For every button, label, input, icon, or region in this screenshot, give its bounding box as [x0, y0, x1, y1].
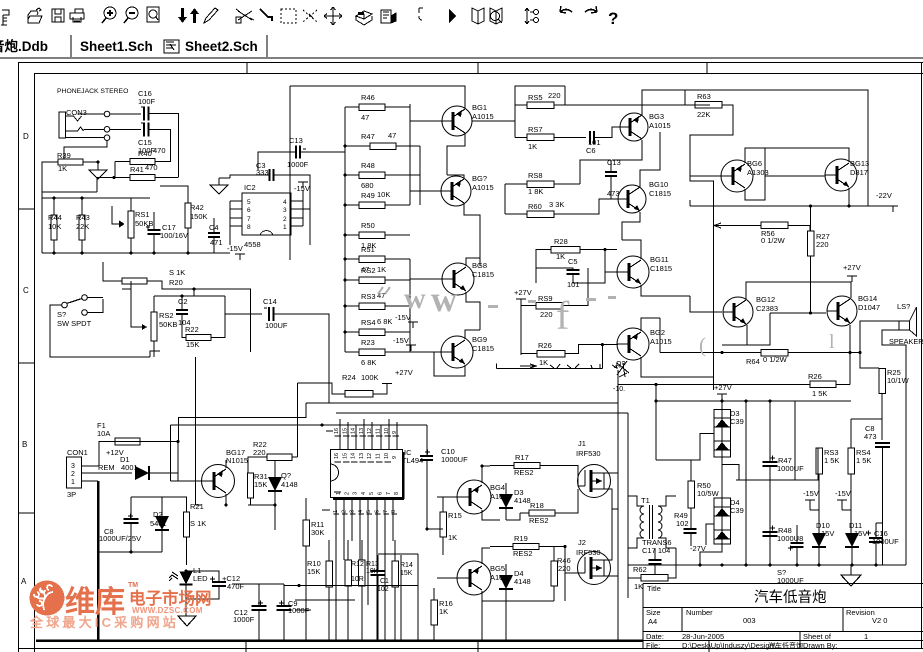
wire lower horiz 600: [295, 599, 355, 601]
wire BG6 emitter: [745, 176, 765, 200]
svg-text:C1815: C1815: [472, 270, 494, 279]
svg-text:f: f: [556, 293, 570, 338]
svg-text:R20: R20: [169, 278, 183, 287]
toolbar icon zoom doc: [147, 7, 159, 22]
wire to C14: [225, 313, 262, 315]
wire BG7 base: [410, 190, 441, 192]
wire BG3 emitter: [612, 140, 642, 160]
pin circle 2: [104, 127, 110, 133]
svg-text:RES2: RES2: [513, 549, 533, 558]
wire tip to C16: [110, 113, 141, 115]
svg-text:A1015: A1015: [472, 183, 494, 192]
feedback rail y413: [336, 412, 628, 414]
svg-text:471: 471: [210, 238, 223, 247]
jack contacts: [66, 116, 82, 121]
svg-text:B: B: [22, 440, 27, 449]
wire R26a right: [565, 345, 618, 354]
wire R39 right: [83, 161, 98, 163]
svg-text:470: 470: [145, 163, 158, 172]
transistor BG1: [442, 106, 472, 136]
wire R28 left: [536, 250, 551, 284]
svg-text:5: 5: [366, 510, 372, 513]
wire CON1 pin3: [82, 462, 100, 466]
svg-text:w: w: [431, 279, 457, 319]
svg-text:R18: R18: [530, 501, 544, 510]
svg-text:2: 2: [71, 471, 75, 478]
toolbar icon open: [28, 8, 42, 23]
svg-text:15: 15: [342, 428, 348, 434]
svg-text:6: 6: [378, 492, 384, 495]
svg-text:BG5: BG5: [490, 564, 505, 573]
wire C13 right: [300, 151, 345, 153]
wire C14 right: [274, 314, 330, 403]
svg-text:28-Jun-2005: 28-Jun-2005: [682, 632, 724, 641]
wire BG6 collector: [745, 148, 765, 176]
svg-text:15K: 15K: [307, 567, 320, 576]
wire bridge2 wires: [721, 491, 723, 498]
transistor BG5: [457, 561, 491, 595]
wire R22a right: [211, 296, 225, 338]
svg-text:4148: 4148: [281, 480, 298, 489]
pin circle 1: [104, 111, 110, 117]
wire BG5 base: [437, 577, 457, 579]
capacitor C9: [279, 601, 284, 606]
svg-text:C6: C6: [586, 146, 596, 155]
svg-text:R40: R40: [138, 149, 152, 158]
wire emitter stub left: [722, 344, 747, 346]
svg-text:Title: Title: [647, 584, 661, 593]
pin circle 3: [104, 135, 110, 141]
psu vertical x745: [745, 401, 747, 565]
svg-text:-15V: -15V: [393, 336, 409, 345]
svg-text:1000U8: 1000U8: [777, 534, 803, 543]
feedback staircase R24: [298, 383, 346, 394]
svg-text:220: 220: [548, 91, 561, 100]
toolbar icon book1: [472, 8, 484, 24]
svg-text:RS3: RS3: [361, 292, 376, 301]
svg-text:全球最大IC采购网站: 全球最大IC采购网站: [29, 615, 179, 630]
psu top rail wires: [795, 401, 818, 480]
wire C3 left: [230, 175, 270, 178]
wire R42 top: [160, 186, 188, 193]
zone tick bottom 3: [708, 641, 710, 652]
wire switch pole2: [88, 299, 104, 313]
svg-text:R43: R43: [76, 213, 90, 222]
wire J2 drain: [604, 509, 612, 560]
wire RS5 loop: [564, 86, 566, 105]
svg-text:A1015: A1015: [649, 121, 671, 130]
tab icon sheet2: [164, 40, 179, 53]
wire R40 right: [155, 161, 171, 163]
bottom rail 552: [99, 551, 162, 553]
svg-text:470: 470: [153, 146, 166, 155]
wire C8a top: [131, 496, 162, 498]
svg-text:5: 5: [369, 492, 375, 495]
svg-text:BG4: BG4: [490, 483, 505, 492]
toolbar icon dashed rect: [281, 9, 296, 23]
svg-text:C1: C1: [380, 578, 389, 585]
svg-text:3: 3: [283, 207, 287, 214]
watermark logo circle: [30, 581, 65, 616]
transistor BG17: [202, 465, 235, 498]
svg-text:R19: R19: [514, 534, 528, 543]
transistor BG14: [827, 296, 857, 326]
wire R63 right: [690, 105, 733, 176]
wire BG4 collector: [482, 466, 490, 483]
svg-text:1K: 1K: [634, 582, 643, 591]
ladder right bus stubs: [410, 145, 420, 147]
wire BG12 collector: [746, 282, 851, 299]
wire T1 left leads: [628, 496, 644, 506]
wire ring to C15: [110, 128, 141, 130]
svg-text:47: 47: [388, 131, 396, 140]
wire node to C2: [193, 289, 195, 296]
wire C16 right: [149, 114, 179, 178]
wire bottom bus to R46: [564, 547, 566, 602]
svg-text:14: 14: [351, 428, 357, 434]
capacitor S3 1000UF: [788, 546, 793, 551]
svg-text:+27V: +27V: [843, 263, 861, 272]
wire T1 to J: [612, 508, 618, 510]
wire R22b feed vertical: [297, 383, 299, 457]
svg-text:V2 0: V2 0: [872, 616, 887, 625]
svg-text:15K: 15K: [186, 340, 199, 349]
sheet right border: [921, 63, 923, 649]
wire R20 left: [103, 262, 122, 281]
transistor BG12: [723, 297, 753, 327]
IC3 bottom pin wires: [335, 498, 337, 640]
zone tick top 2: [477, 63, 479, 74]
wire R19 right: [539, 546, 565, 548]
ladder left bus: [344, 107, 346, 352]
svg-text:RES2: RES2: [514, 468, 534, 477]
svg-text:8: 8: [247, 224, 251, 231]
transistor Q7 scribble: [617, 361, 629, 377]
svg-text:4148: 4148: [514, 496, 531, 505]
svg-text:Sheet1.Sch: Sheet1.Sch: [80, 39, 153, 54]
svg-text:C5: C5: [568, 257, 578, 266]
wire BG12 emitter: [747, 313, 770, 345]
svg-text:N1015: N1015: [226, 456, 248, 465]
svg-text:15K: 15K: [400, 570, 413, 577]
svg-text:4: 4: [283, 199, 287, 206]
psu horizontal y480: [736, 479, 795, 481]
svg-text:Revision: Revision: [846, 608, 875, 617]
toolbar icon polyline: [260, 9, 272, 21]
wire IC2 pin3 stub: [303, 209, 310, 245]
svg-text:BG?: BG?: [472, 174, 487, 183]
svg-text:1: 1: [283, 224, 287, 231]
capacitor C17b: [649, 559, 662, 561]
wire R64 right: [788, 352, 860, 354]
resistor R16: [431, 600, 438, 625]
svg-text:13: 13: [359, 428, 365, 434]
svg-text:1K: 1K: [528, 142, 537, 151]
wire D1 right: [149, 442, 178, 474]
ladder right bus upper: [409, 104, 411, 205]
svg-text:电子市场网: 电子市场网: [129, 588, 212, 608]
wire LED to C12c: [186, 571, 219, 581]
svg-text:11: 11: [376, 453, 382, 459]
svg-text:R44: R44: [48, 213, 62, 222]
svg-text:3P: 3P: [67, 490, 76, 499]
wire C6 right: [594, 127, 620, 138]
wire BG10 collector: [640, 132, 660, 187]
svg-text:50KB: 50KB: [135, 219, 153, 228]
svg-text:R60: R60: [528, 202, 542, 211]
svg-text:470F: 470F: [227, 582, 245, 591]
wire BG8 collector: [466, 258, 480, 266]
svg-text:C1815: C1815: [650, 264, 672, 273]
svg-text:D: D: [23, 132, 29, 141]
svg-text:+27V: +27V: [714, 383, 732, 392]
wire BG11 emitter: [641, 285, 690, 296]
wire feedback box: [150, 351, 160, 357]
wire R28 right: [580, 249, 617, 251]
size row: [681, 608, 683, 632]
transistor BG8: [442, 263, 474, 295]
svg-text:2: 2: [344, 492, 350, 495]
resistor RS4b: [848, 448, 855, 474]
svg-text:?: ?: [608, 9, 618, 28]
svg-text:Number: Number: [686, 608, 713, 617]
transistor BG9: [441, 336, 473, 368]
svg-text:12: 12: [367, 428, 373, 434]
svg-text:D:\Desk\Up\Induszy\Design\: D:\Desk\Up\Induszy\Design\: [682, 641, 777, 650]
wire horiz 554: [378, 553, 418, 555]
svg-text:R14: R14: [400, 562, 413, 569]
wire CON1 pin1 thick: [82, 480, 99, 482]
transistor BG3: [620, 113, 648, 141]
svg-text:10/5W: 10/5W: [697, 489, 720, 498]
IC2 left bus: [229, 201, 231, 245]
svg-text:220: 220: [558, 564, 571, 573]
svg-text:10/1W: 10/1W: [887, 376, 910, 385]
toolbar icon save: [52, 9, 64, 22]
wire resistor bottom bus: [284, 585, 418, 587]
bridge rectifier D4: [714, 498, 731, 544]
wire BG1 collector top: [290, 86, 465, 108]
svg-text:1: 1: [864, 632, 868, 641]
wire caps top rail: [232, 583, 284, 585]
resistor R25: [879, 369, 886, 394]
svg-text:R21: R21: [190, 502, 204, 511]
toolbar icon print: [70, 9, 84, 22]
wire BG2 emitter: [641, 357, 714, 377]
wire BG12 base: [690, 296, 722, 312]
tab bar bottom line: [0, 57, 923, 59]
capacitor C16b: [866, 531, 871, 536]
wire out to R64 row: [660, 352, 714, 354]
toolbar icon move cross: [324, 7, 342, 25]
wire bridge1 wires: [721, 400, 723, 410]
feedback staircase left: [179, 403, 307, 442]
wire R17 right: [540, 466, 578, 474]
toolbar icon crossed dashed: [303, 10, 317, 22]
svg-text:4558: 4558: [244, 240, 261, 249]
svg-text:C39: C39: [730, 417, 744, 426]
resistor RS3b: [816, 448, 823, 474]
svg-text:2: 2: [283, 216, 287, 223]
svg-text:D1047: D1047: [858, 303, 880, 312]
svg-text:WWW.DZSC.COM: WWW.DZSC.COM: [132, 606, 203, 615]
wire C2 top: [154, 295, 225, 297]
svg-text:100K: 100K: [361, 373, 379, 382]
svg-text:(: (: [699, 333, 706, 357]
svg-text:+27V: +27V: [514, 288, 532, 297]
svg-text:CON1: CON1: [67, 448, 88, 457]
pin bus verticals: [339, 419, 341, 449]
svg-text:BG10: BG10: [649, 180, 668, 189]
svg-text:R41: R41: [130, 165, 144, 174]
svg-text:4148: 4148: [514, 577, 531, 586]
wire R60 right: [554, 199, 611, 214]
svg-text:J2: J2: [578, 538, 586, 547]
bridge rectifier D3: [714, 410, 731, 458]
svg-text:Size: Size: [646, 608, 661, 617]
svg-text:Drawn By:: Drawn By:: [803, 641, 838, 650]
svg-text:A: A: [21, 577, 27, 586]
svg-text:File:: File:: [646, 641, 660, 650]
wire speaker bottom: [882, 330, 906, 565]
svg-text:102: 102: [377, 586, 389, 593]
wire BG13 collector: [765, 148, 849, 162]
wire hash vertical: [601, 345, 603, 369]
wire psu 656 vertical: [655, 385, 657, 461]
svg-text:R47: R47: [361, 132, 375, 141]
power feed vertical x713: [690, 176, 714, 390]
wire rail552 to thick: [98, 551, 100, 553]
svg-text:S 1K: S 1K: [169, 268, 185, 277]
svg-text:R17: R17: [515, 453, 529, 462]
svg-text:1K: 1K: [439, 607, 448, 616]
svg-text:-15V: -15V: [803, 489, 819, 498]
zone tick left C/B: [19, 362, 35, 364]
svg-text:1 5K: 1 5K: [812, 389, 827, 398]
svg-text:1: 1: [71, 479, 75, 486]
svg-text:7: 7: [247, 216, 251, 223]
svg-text:D817: D817: [850, 168, 868, 177]
svg-text:Q?: Q?: [616, 361, 625, 368]
feedback rail y403: [306, 402, 618, 404]
svg-text:C14: C14: [263, 297, 277, 306]
svg-text:R23: R23: [361, 338, 375, 347]
svg-text:Sheet of: Sheet of: [803, 632, 832, 641]
wire sleeve down: [64, 141, 107, 160]
IC3 bottom pin numbers: [334, 491, 341, 493]
svg-text:BG12: BG12: [756, 295, 775, 304]
svg-text:3: 3: [71, 463, 75, 470]
svg-text:C13: C13: [607, 158, 621, 167]
wire bridge2 top link: [721, 465, 723, 492]
vertical x195 long: [195, 357, 197, 505]
IC2 left pin stubs: [230, 200, 242, 202]
svg-text:IRF530: IRF530: [576, 449, 601, 458]
wire J2 source: [604, 575, 618, 577]
svg-text:1K: 1K: [539, 358, 548, 367]
svg-text:R13: R13: [366, 561, 379, 568]
svg-text:A4: A4: [648, 617, 657, 626]
svg-text:R48: R48: [361, 161, 375, 170]
ground IC2: [218, 178, 220, 185]
svg-text:R26: R26: [808, 372, 822, 381]
wire BG17 collector: [225, 460, 227, 468]
svg-text:RS2: RS2: [361, 266, 376, 275]
wire BG8 base: [410, 278, 442, 280]
transistor BG13: [825, 159, 857, 191]
wire BG17 emitter: [225, 494, 227, 505]
pin numbers above IC: [326, 430, 333, 432]
wire J1 gate: [577, 473, 579, 486]
wire BG5 emitter: [482, 591, 500, 601]
toolbar icon sheet library: [381, 10, 391, 23]
svg-text:LS?: LS?: [897, 302, 910, 311]
pin numbers below IC: [322, 509, 330, 511]
svg-text:-22V: -22V: [876, 191, 892, 200]
svg-text:6 8K: 6 8K: [377, 317, 392, 326]
capacitor C47 1000UF: [770, 456, 775, 461]
toolbar icon cut: [236, 9, 254, 20]
svg-text:S 1K: S 1K: [190, 519, 206, 528]
svg-text:1000UF: 1000UF: [777, 464, 804, 473]
svg-text:10A: 10A: [97, 429, 110, 438]
toolbar icon redo: [585, 10, 597, 13]
wire BG2 collector: [641, 318, 660, 331]
toolbar icon netlist: [525, 8, 529, 24]
wire BG7 emitter: [464, 204, 480, 266]
svg-text:1000F: 1000F: [233, 615, 255, 624]
wire J1 drain: [604, 472, 618, 474]
wire R39 left loop: [42, 162, 97, 192]
svg-text:T1: T1: [641, 496, 650, 505]
svg-text:220: 220: [540, 310, 553, 319]
wire R22b right: [292, 456, 298, 458]
svg-text:BG14: BG14: [858, 294, 877, 303]
svg-text:-10.: -10.: [613, 386, 625, 393]
svg-text:47: 47: [361, 113, 369, 122]
svg-text:220: 220: [816, 240, 829, 249]
svg-text:C13: C13: [289, 136, 303, 145]
wire BG4 base: [437, 496, 457, 498]
resistor R12: [345, 560, 352, 586]
wires R12 R13 bottoms: [347, 586, 349, 640]
wire C3 right: [274, 175, 311, 209]
svg-text:BG9: BG9: [472, 335, 487, 344]
svg-text:LED: LED: [193, 574, 208, 583]
IC3 TL494 box: [331, 450, 403, 498]
svg-text:J1: J1: [578, 439, 586, 448]
main vertical bus 618: [617, 370, 619, 640]
svg-text:C: C: [23, 286, 29, 295]
transistor BG6: [721, 160, 753, 192]
wire BG1 emitter: [447, 134, 465, 175]
svg-text:11: 11: [376, 428, 382, 434]
resistor R15: [440, 512, 447, 537]
ladder right bus lower: [409, 259, 411, 352]
wire R56 left arrow: [714, 223, 721, 228]
zone tick left D/C: [19, 208, 35, 210]
wire right rail top: [755, 90, 868, 206]
wire BG9 collector: [465, 330, 480, 339]
toolbar icon pencil: [204, 8, 218, 23]
svg-text:C39: C39: [730, 506, 744, 515]
svg-text:Date:: Date:: [646, 632, 664, 641]
svg-text:RS9: RS9: [538, 294, 553, 303]
svg-text:8: 8: [394, 492, 400, 495]
ground jack: [97, 162, 99, 170]
svg-text:+27V: +27V: [395, 368, 413, 377]
zone tick top 1: [246, 63, 248, 74]
